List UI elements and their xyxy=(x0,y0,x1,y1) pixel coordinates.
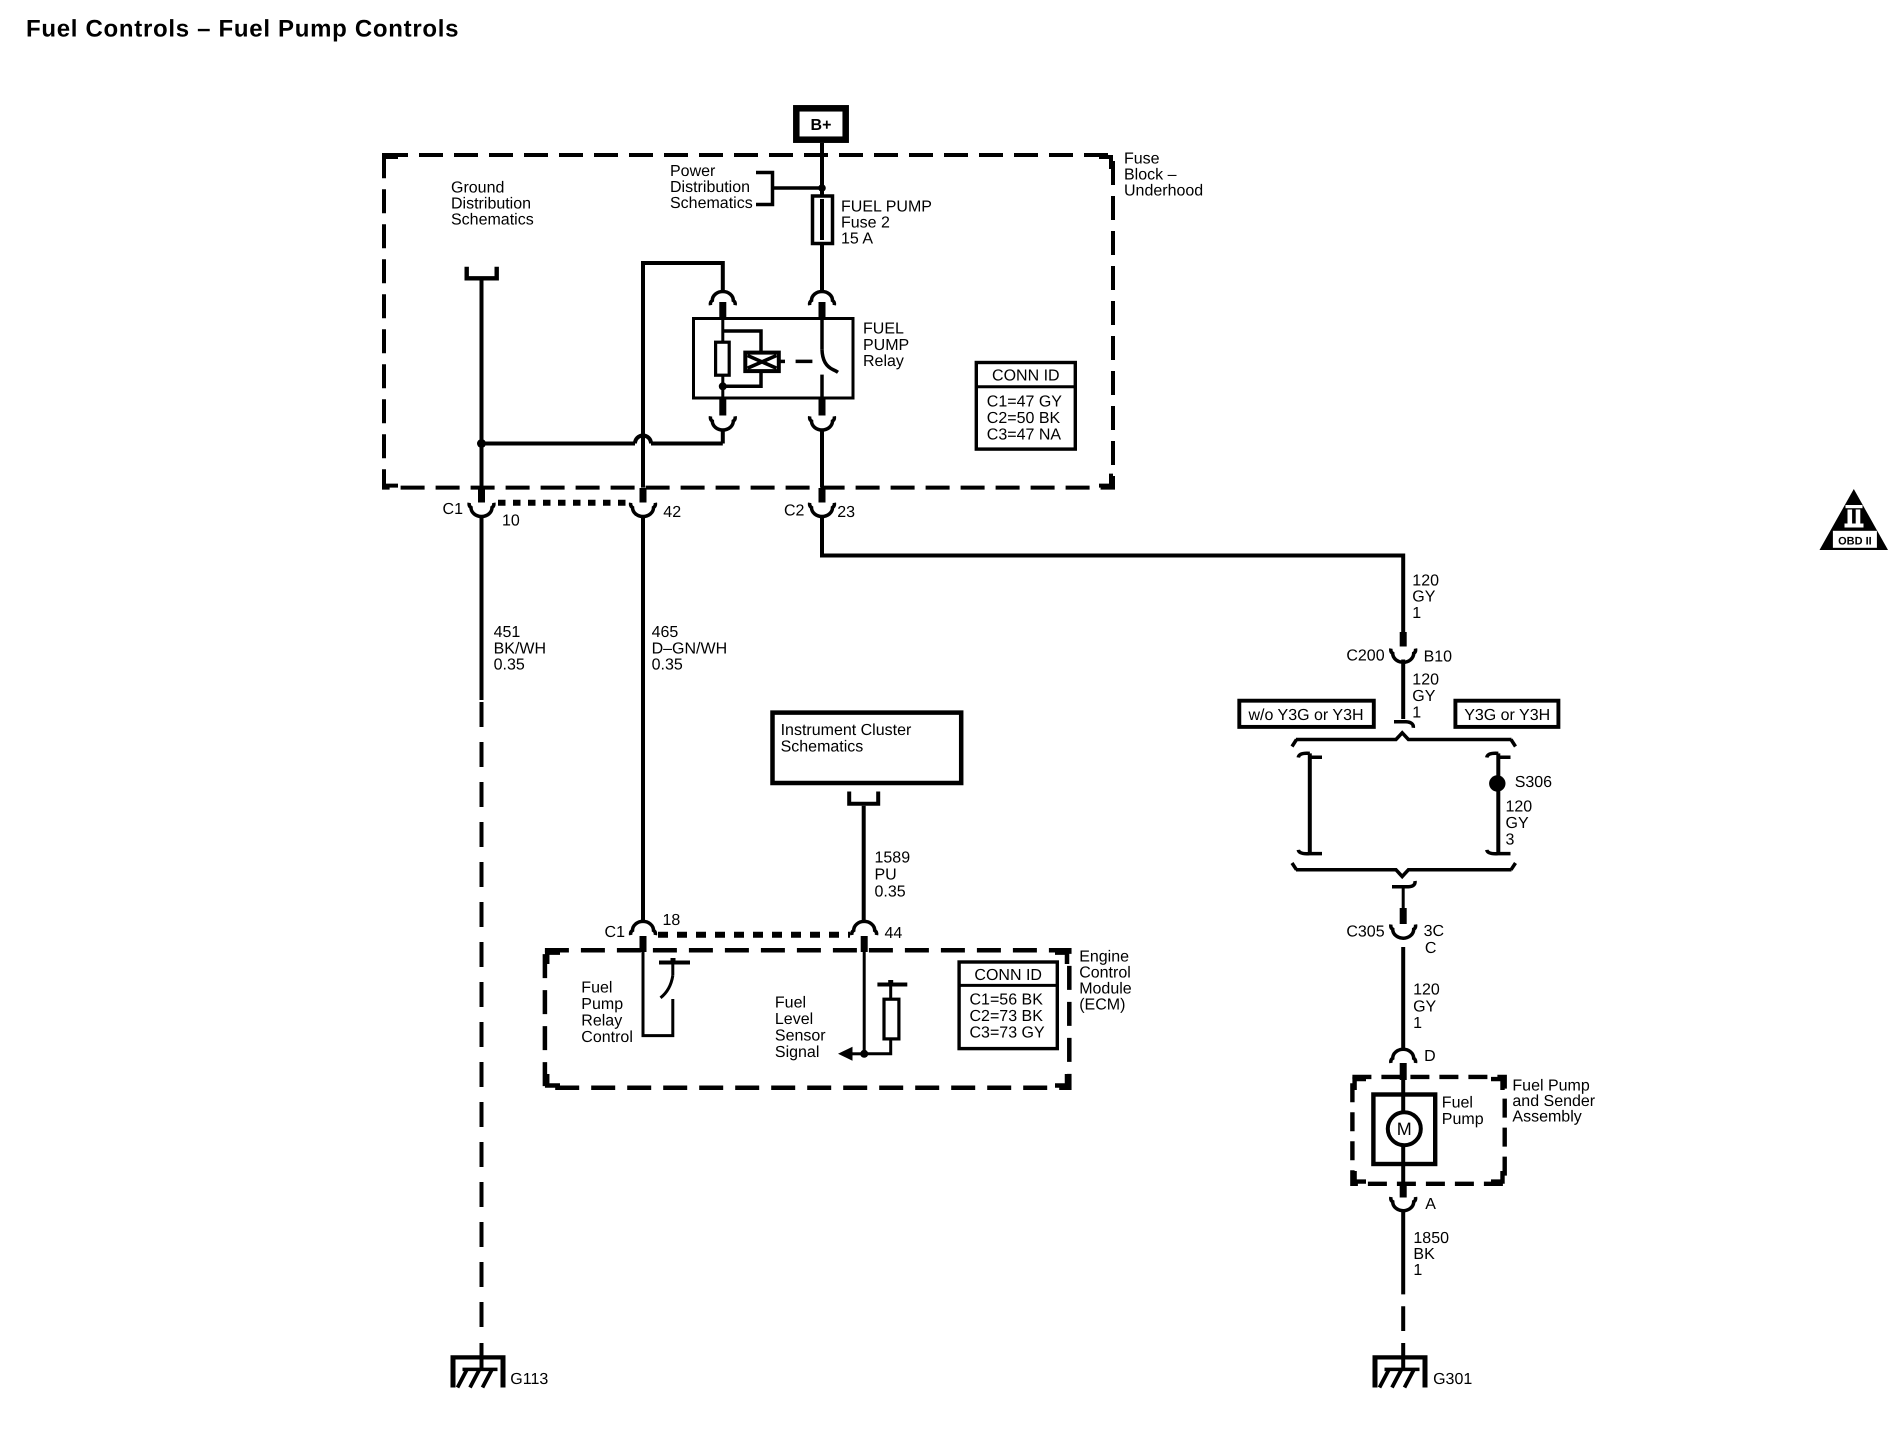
svg-text:Control: Control xyxy=(1079,965,1131,982)
svg-text:w/o Y3G or Y3H: w/o Y3G or Y3H xyxy=(1248,707,1364,724)
svg-text:120: 120 xyxy=(1412,672,1439,689)
wire ground distribution down to junction xyxy=(480,281,484,488)
CONN ID table (ECM) xyxy=(959,962,1057,1049)
svg-text:(ECM): (ECM) xyxy=(1079,997,1125,1014)
svg-text:465: 465 xyxy=(652,624,679,641)
Instrument Cluster Schematics box xyxy=(773,713,962,783)
svg-text:44: 44 xyxy=(885,925,903,942)
dotted connector line C1-42 xyxy=(498,500,628,506)
svg-text:42: 42 xyxy=(663,504,681,521)
svg-text:FUEL PUMP: FUEL PUMP xyxy=(841,199,932,216)
wire 465 circuit to ECM xyxy=(641,516,645,922)
svg-text:1: 1 xyxy=(1413,1262,1422,1279)
svg-text:23: 23 xyxy=(837,504,855,521)
svg-text:1850: 1850 xyxy=(1413,1230,1449,1247)
svg-text:1589: 1589 xyxy=(875,850,911,867)
wire end hook above brace xyxy=(1394,722,1413,728)
ECM box corner reinforcements xyxy=(547,953,1067,1086)
wire C305 down to D xyxy=(1401,947,1405,1048)
svg-text:Underhood: Underhood xyxy=(1124,183,1203,200)
wire motor to A xyxy=(1401,1145,1405,1184)
svg-text:1: 1 xyxy=(1412,605,1421,622)
option box w/o Y3G or Y3H xyxy=(1239,701,1374,727)
svg-text:Relay: Relay xyxy=(863,353,904,370)
connector arc relay pin top right xyxy=(810,292,835,306)
wire fuse to relay connector xyxy=(820,243,824,290)
svg-text:OBD II: OBD II xyxy=(1838,536,1872,548)
wire 1589 circuit xyxy=(862,806,866,922)
wire 451 circuit xyxy=(480,516,484,701)
wire C200 down xyxy=(1401,660,1405,720)
svg-text:Level: Level xyxy=(775,1011,813,1028)
svg-text:451: 451 xyxy=(494,624,521,641)
svg-text:15 A: 15 A xyxy=(841,231,873,248)
svg-text:A: A xyxy=(1425,1196,1436,1213)
svg-text:Fuse 2: Fuse 2 xyxy=(841,215,890,232)
connector 42 xyxy=(640,488,647,503)
connector arc relay pin bottom left xyxy=(719,399,726,416)
connector arc relay pin bottom right xyxy=(819,399,826,416)
fuel pump and sender assembly dashed box xyxy=(1352,1077,1504,1184)
svg-text:C1: C1 xyxy=(605,924,626,941)
split brace top xyxy=(1296,733,1512,740)
connector C1 pin 10 xyxy=(478,488,485,503)
Power Distribution Schematics label + bracket xyxy=(670,163,822,212)
wire merge to C305 xyxy=(1392,881,1415,887)
svg-text:D–GN/WH: D–GN/WH xyxy=(652,640,728,657)
svg-text:D: D xyxy=(1424,1048,1436,1065)
svg-text:C3=47 NA: C3=47 NA xyxy=(987,427,1062,444)
connector D (fuel pump assembly) xyxy=(1391,1049,1416,1063)
svg-text:120: 120 xyxy=(1506,799,1533,816)
ECM dashed box xyxy=(545,950,1069,1088)
svg-text:G301: G301 xyxy=(1433,1371,1472,1388)
svg-text:Block –: Block – xyxy=(1124,167,1177,184)
svg-text:Assembly: Assembly xyxy=(1512,1109,1581,1126)
svg-text:C: C xyxy=(1425,940,1437,957)
ECM fuel level sensor input xyxy=(838,952,907,1061)
svg-text:3C: 3C xyxy=(1424,923,1444,940)
relay coil X-box symbol xyxy=(745,353,785,372)
CONN ID table (fuse block) xyxy=(976,363,1075,450)
dashed actuation link xyxy=(796,360,813,364)
svg-text:Ground: Ground xyxy=(451,180,504,197)
svg-text:C2=50 BK: C2=50 BK xyxy=(987,410,1061,427)
svg-text:C2=73 BK: C2=73 BK xyxy=(970,1008,1044,1025)
svg-text:GY: GY xyxy=(1506,815,1529,832)
svg-text:Fuel Controls – Fuel Pump Cont: Fuel Controls – Fuel Pump Controls xyxy=(26,16,459,43)
battery B+ symbol xyxy=(796,108,845,139)
dotted connector line 18-44 xyxy=(658,932,850,938)
svg-text:PUMP: PUMP xyxy=(863,337,909,354)
connector C2 pin 23 xyxy=(819,488,826,503)
svg-text:GY: GY xyxy=(1412,589,1435,606)
connector C200 pin B10 xyxy=(1400,632,1407,647)
OBD II symbol xyxy=(1820,489,1889,550)
relay K: FUEL PUMP Relay box xyxy=(694,319,854,399)
svg-text:Module: Module xyxy=(1079,981,1132,998)
connector C1 pin 18 (ECM) xyxy=(631,921,656,935)
svg-text:S306: S306 xyxy=(1515,774,1552,791)
svg-text:120: 120 xyxy=(1413,982,1440,999)
svg-text:0.35: 0.35 xyxy=(652,656,683,673)
svg-text:and Sender: and Sender xyxy=(1512,1093,1595,1110)
wire B+ to fuse xyxy=(820,143,824,196)
node junction dot ground wire xyxy=(477,439,486,448)
svg-text:Relay: Relay xyxy=(581,1013,622,1030)
svg-text:18: 18 xyxy=(663,912,681,929)
svg-text:Distribution: Distribution xyxy=(451,196,531,213)
fuel pump motor box xyxy=(1373,1095,1435,1165)
svg-text:Schematics: Schematics xyxy=(670,195,753,212)
ground distribution bracket xyxy=(467,267,497,279)
pump box corner reinforcements xyxy=(1355,1079,1503,1182)
svg-text:M: M xyxy=(1397,1119,1412,1139)
svg-text:C1=56 BK: C1=56 BK xyxy=(970,991,1044,1008)
svg-text:C3=73 GY: C3=73 GY xyxy=(970,1025,1045,1042)
svg-text:B+: B+ xyxy=(811,117,832,134)
svg-text:C2: C2 xyxy=(784,503,805,520)
connector C305 pin 3C xyxy=(1400,908,1407,924)
wire relay coil low side to ground wire (with hop) xyxy=(651,442,723,446)
svg-text:Signal: Signal xyxy=(775,1044,819,1061)
svg-text:Fuel Pump: Fuel Pump xyxy=(1512,1078,1589,1095)
svg-text:C200: C200 xyxy=(1346,647,1384,664)
svg-text:Fuel: Fuel xyxy=(775,995,806,1012)
svg-text:0.35: 0.35 xyxy=(494,656,525,673)
ECM fuel pump relay driver switch xyxy=(643,950,690,1036)
svg-text:Distribution: Distribution xyxy=(670,179,750,196)
svg-text:CONN ID: CONN ID xyxy=(992,368,1060,385)
connector A xyxy=(1400,1184,1407,1198)
svg-text:C1: C1 xyxy=(443,501,464,518)
svg-text:Power: Power xyxy=(670,163,716,180)
svg-text:3: 3 xyxy=(1506,831,1515,848)
wire 1850 circuit xyxy=(1401,1211,1405,1372)
fuse block underhood dashed box xyxy=(384,155,1113,488)
wire loop from relay coil to pin 42 line xyxy=(643,261,723,488)
svg-text:PU: PU xyxy=(875,867,897,884)
svg-text:BK/WH: BK/WH xyxy=(494,640,546,657)
svg-text:C1=47 GY: C1=47 GY xyxy=(987,394,1062,411)
svg-text:10: 10 xyxy=(502,513,520,530)
split brace bottom xyxy=(1296,870,1512,877)
instrument cluster bracket xyxy=(849,792,878,804)
svg-text:Schematics: Schematics xyxy=(451,212,534,229)
svg-text:Pump: Pump xyxy=(1442,1111,1484,1128)
svg-text:FUEL: FUEL xyxy=(863,321,904,338)
relay coil resistor xyxy=(716,319,761,400)
svg-text:C305: C305 xyxy=(1346,924,1384,941)
svg-text:Instrument Cluster: Instrument Cluster xyxy=(781,722,912,739)
svg-text:Fuse: Fuse xyxy=(1124,151,1160,168)
svg-text:Fuel: Fuel xyxy=(1442,1095,1473,1112)
svg-text:Engine: Engine xyxy=(1079,949,1129,966)
branch connector right with S306 splice xyxy=(1487,753,1552,853)
connector pin 44 (ECM) xyxy=(852,921,877,935)
svg-text:Control: Control xyxy=(581,1029,633,1046)
fuse block box corner reinforcements xyxy=(384,157,1111,486)
svg-text:Schematics: Schematics xyxy=(781,738,864,755)
svg-text:1: 1 xyxy=(1413,1015,1422,1032)
svg-text:0.35: 0.35 xyxy=(875,884,906,901)
node: junction dot at fuse top xyxy=(818,184,826,192)
svg-text:BK: BK xyxy=(1413,1246,1435,1263)
svg-text:Sensor: Sensor xyxy=(775,1028,826,1045)
svg-text:Pump: Pump xyxy=(581,996,623,1013)
option box Y3G or Y3H xyxy=(1455,701,1558,727)
svg-text:CONN ID: CONN ID xyxy=(974,967,1042,984)
ground G113 xyxy=(451,1357,549,1388)
wire D into pump xyxy=(1401,1080,1405,1112)
svg-text:1: 1 xyxy=(1412,705,1421,722)
motor M circle xyxy=(1388,1112,1421,1145)
connector arc relay pin top left xyxy=(710,292,735,306)
wire C2 to right column xyxy=(822,516,1403,633)
svg-text:GY: GY xyxy=(1412,688,1435,705)
svg-text:GY: GY xyxy=(1413,998,1436,1015)
svg-text:120: 120 xyxy=(1412,573,1439,590)
svg-text:Y3G or Y3H: Y3G or Y3H xyxy=(1464,707,1550,724)
relay switch xyxy=(820,319,824,350)
svg-text:G113: G113 xyxy=(510,1371,548,1388)
ground G301 xyxy=(1373,1357,1473,1388)
svg-text:Fuel: Fuel xyxy=(581,980,612,997)
fuse FUEL PUMP Fuse 2 15A xyxy=(813,196,932,248)
branch connector left (w/o option) xyxy=(1298,753,1322,853)
svg-text:B10: B10 xyxy=(1424,648,1453,665)
